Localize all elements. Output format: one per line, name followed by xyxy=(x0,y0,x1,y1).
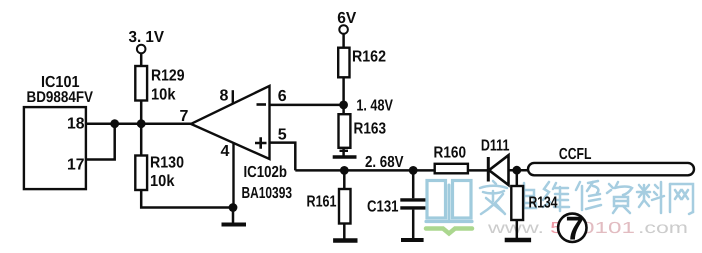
svg-text:R163: R163 xyxy=(354,121,387,138)
svg-text:5: 5 xyxy=(278,127,287,144)
wire R162 to node xyxy=(342,77,345,114)
ground below op-amp xyxy=(222,208,247,225)
svg-text:BA10393: BA10393 xyxy=(242,185,293,202)
svg-text:R162: R162 xyxy=(352,49,386,66)
watermark character 料 xyxy=(637,182,664,213)
watermark character 电 xyxy=(514,183,536,208)
wire pin5 step down xyxy=(270,143,296,171)
svg-text:R160: R160 xyxy=(434,145,467,162)
watermark book logo xyxy=(426,181,472,234)
resistor R163 xyxy=(339,114,387,148)
svg-text:R134: R134 xyxy=(529,195,558,212)
svg-text:R161: R161 xyxy=(307,194,337,211)
resistor R130 xyxy=(135,155,184,191)
power terminal 6V xyxy=(337,10,356,48)
watermark character 家 xyxy=(480,181,507,214)
svg-text:17: 17 xyxy=(67,157,85,174)
svg-text:4: 4 xyxy=(221,143,230,160)
svg-text:2. 68V: 2. 68V xyxy=(365,154,404,171)
wire pin6 to 1.48V node xyxy=(270,104,344,107)
svg-text:BD9884FV: BD9884FV xyxy=(27,89,94,106)
ground below R134 xyxy=(505,220,531,240)
wire R130 bottom to ground node xyxy=(141,190,233,208)
wire R160 to D111 xyxy=(468,169,487,172)
svg-text:10k: 10k xyxy=(151,87,176,104)
circled figure number 7 xyxy=(558,210,586,247)
junction node R129/R130 xyxy=(137,119,146,128)
svg-text:0101: 0101 xyxy=(581,220,635,237)
wire 2.68V net xyxy=(295,169,434,172)
wire D111 to CCFL xyxy=(509,169,529,172)
svg-text:6V: 6V xyxy=(337,10,356,27)
svg-text:6: 6 xyxy=(278,88,287,105)
ground below R163 xyxy=(333,148,357,157)
IC IC101 BD9884FV xyxy=(24,74,94,189)
svg-text:.com: .com xyxy=(638,220,688,237)
svg-text:1. 48V: 1. 48V xyxy=(356,98,393,115)
svg-text:C131: C131 xyxy=(367,199,399,216)
svg-text:R129: R129 xyxy=(151,68,185,85)
ground below R161 xyxy=(333,224,357,241)
capacitor C131 xyxy=(367,170,425,238)
wire pin18 to op-amp xyxy=(86,122,191,125)
watermark url www.520101.com xyxy=(487,220,688,237)
watermark character 修 xyxy=(576,181,601,210)
junction node pin4/ground xyxy=(229,203,238,212)
junction node C131 xyxy=(409,166,418,175)
watermark character 资 xyxy=(607,182,632,213)
resistor R129 xyxy=(135,66,184,104)
junction node 1.48V xyxy=(339,101,348,110)
diode D111 xyxy=(481,138,510,186)
watermark character 维 xyxy=(543,182,569,211)
resistor R160 xyxy=(434,145,468,174)
svg-text:8: 8 xyxy=(220,88,229,105)
svg-text:7: 7 xyxy=(180,108,189,125)
wire pin17 up to node xyxy=(86,124,115,160)
svg-text:3. 1V: 3. 1V xyxy=(129,29,165,46)
svg-text:7: 7 xyxy=(566,210,584,247)
svg-text:R130: R130 xyxy=(150,155,184,172)
svg-text:IC102b: IC102b xyxy=(244,164,288,181)
lamp CCFL xyxy=(528,146,694,175)
resistor R162 xyxy=(338,48,386,78)
resistor R134 xyxy=(511,170,557,220)
svg-text:D111: D111 xyxy=(481,138,510,155)
junction node R134 xyxy=(512,166,521,175)
watermark character 网 xyxy=(670,184,693,214)
resistor R161 xyxy=(307,170,351,223)
wire R129 to R130 xyxy=(140,101,143,156)
op-amp IC102b BA10393 xyxy=(180,86,293,208)
power terminal 3.1V xyxy=(129,29,165,66)
svg-text:www.: www. xyxy=(487,220,544,237)
junction node R161 xyxy=(340,166,349,175)
svg-text:10k: 10k xyxy=(150,173,175,190)
junction node pin17/18 xyxy=(110,119,119,128)
ground below C131 xyxy=(401,238,424,242)
svg-text:CCFL: CCFL xyxy=(559,146,592,163)
svg-text:18: 18 xyxy=(67,116,85,133)
